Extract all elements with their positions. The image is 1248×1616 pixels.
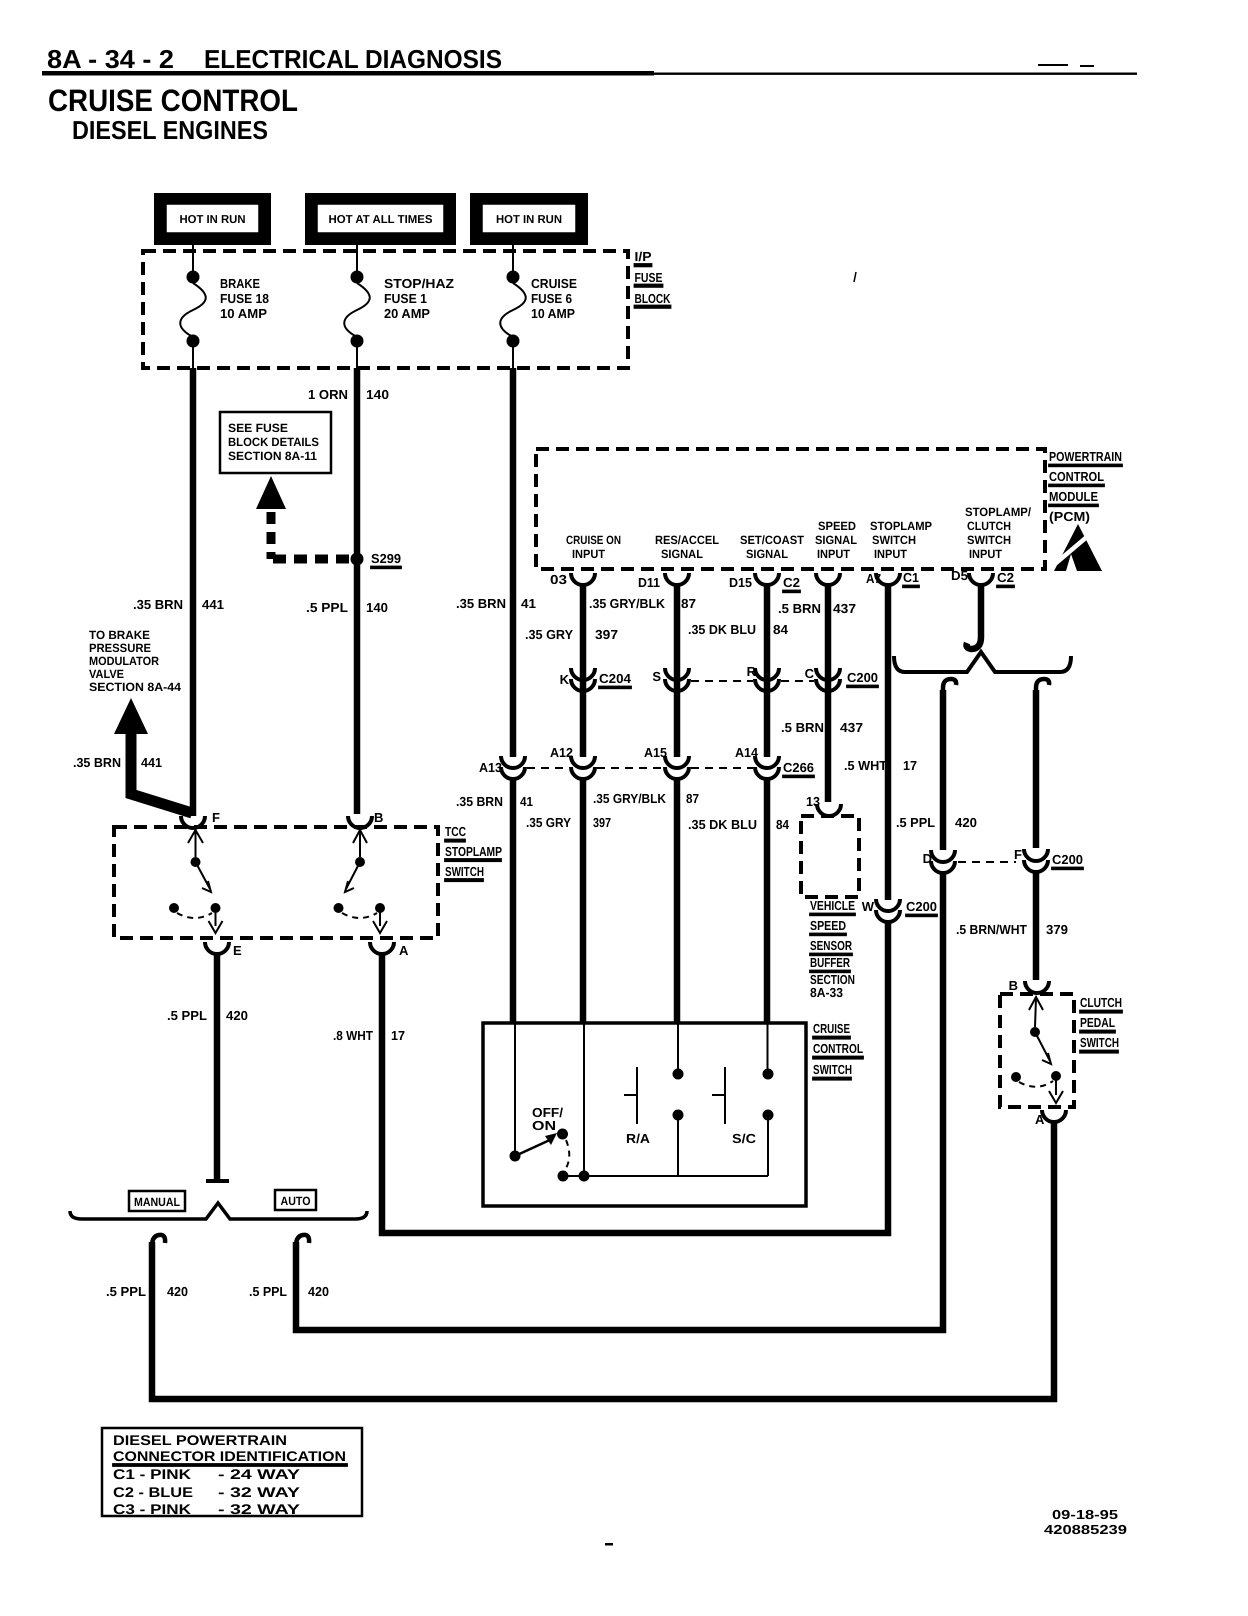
connector D	[931, 850, 955, 862]
TCC pin F	[181, 816, 205, 828]
wire A ckt 17 down, right, up to W C200	[382, 922, 888, 1233]
svg-text:CLUTCH: CLUTCH	[1080, 995, 1122, 1010]
vehicle speed sensor buffer dashed box	[801, 816, 859, 897]
svg-text:10 AMP: 10 AMP	[531, 306, 575, 321]
svg-text:.5 BRN: .5 BRN	[781, 720, 824, 735]
svg-text:FUSE 1: FUSE 1	[384, 291, 427, 306]
svg-text:420: 420	[308, 1284, 329, 1299]
wire D11 ckt 87	[674, 585, 681, 757]
svg-text:.35 BRN: .35 BRN	[456, 794, 503, 809]
svg-text:HOT IN RUN: HOT IN RUN	[180, 214, 246, 226]
connector A15	[665, 756, 689, 768]
label POWERTRAIN CONTROL MODULE (PCM)	[1049, 449, 1122, 524]
svg-text:A12: A12	[550, 745, 573, 760]
svg-text:420885239: 420885239	[1044, 1522, 1127, 1537]
svg-text:84: 84	[776, 817, 790, 832]
svg-text:441: 441	[141, 755, 162, 770]
wire brace left branch ckt 420	[943, 679, 956, 694]
svg-text:.8 WHT: .8 WHT	[333, 1028, 373, 1043]
svg-text:C200: C200	[847, 670, 878, 685]
svg-text:20 AMP: 20 AMP	[384, 306, 430, 321]
PCM pin D15 C2	[755, 573, 779, 585]
wire brake fuse to TCC pin F (ckt 441)	[190, 368, 197, 816]
svg-text:CRUISE: CRUISE	[813, 1021, 850, 1036]
wire feed1 to fuse block	[192, 245, 194, 272]
label box MANUAL	[129, 1191, 185, 1211]
PCM dashed box	[536, 449, 1045, 569]
connector S	[665, 668, 689, 680]
svg-text:.35 BRN: .35 BRN	[133, 597, 183, 612]
svg-text:SWITCH: SWITCH	[813, 1062, 852, 1077]
svg-text:VEHICLE: VEHICLE	[810, 898, 855, 913]
connector K C204	[571, 668, 595, 680]
svg-text:C2: C2	[783, 575, 800, 590]
svg-text:8A - 34 - 2: 8A - 34 - 2	[47, 44, 174, 74]
svg-text:CONNECTOR IDENTIFICATION: CONNECTOR IDENTIFICATION	[113, 1448, 346, 1464]
svg-text:13: 13	[806, 794, 820, 809]
svg-text:- 24 WAY: - 24 WAY	[218, 1466, 301, 1482]
svg-text:TO BRAKE: TO BRAKE	[89, 628, 150, 642]
wire dashed A13 to A12	[527, 767, 569, 769]
svg-text:.5 PPL: .5 PPL	[306, 600, 348, 615]
svg-text:PRESSURE: PRESSURE	[89, 641, 151, 655]
svg-text:R/A: R/A	[626, 1131, 651, 1146]
svg-text:140: 140	[366, 387, 389, 402]
svg-text:E: E	[233, 943, 242, 958]
PCM pin D11	[665, 573, 689, 585]
wire dashed S to R	[691, 680, 753, 682]
note box SEE FUSE BLOCK DETAILS	[220, 412, 331, 473]
svg-text:S299: S299	[371, 551, 401, 566]
svg-text:B: B	[374, 810, 383, 825]
svg-text:397: 397	[595, 627, 618, 642]
svg-text:INPUT: INPUT	[817, 547, 851, 561]
svg-text:MANUAL: MANUAL	[134, 1195, 180, 1209]
svg-text:RES/ACCEL: RES/ACCEL	[655, 533, 719, 547]
clutch pedal switch dashed box	[1000, 994, 1074, 1107]
svg-text:D11: D11	[638, 575, 660, 590]
svg-text:420: 420	[167, 1284, 188, 1299]
svg-text:POWERTRAIN: POWERTRAIN	[1049, 449, 1122, 464]
svg-text:1 ORN: 1 ORN	[308, 387, 348, 402]
svg-text:SWITCH: SWITCH	[1080, 1035, 1119, 1050]
svg-text:TCC: TCC	[445, 824, 466, 839]
clutch pedal switch contact	[1011, 997, 1063, 1103]
connector identification table	[102, 1428, 362, 1517]
svg-text:.5 PPL: .5 PPL	[249, 1284, 287, 1299]
svg-text:A: A	[399, 943, 409, 958]
label CRUISE CONTROL SWITCH	[813, 1021, 863, 1080]
svg-text:09-18-95: 09-18-95	[1052, 1507, 1118, 1522]
svg-text:K: K	[560, 672, 570, 687]
wire ckt 379 to clutch pedal switch	[1033, 872, 1040, 980]
connector A14 C266	[755, 756, 779, 768]
wire auto ckt 420 to connector D	[296, 1235, 309, 1250]
stray mark bottom	[605, 1543, 613, 1546]
connector R	[755, 668, 779, 680]
svg-text:STOPLAMP/: STOPLAMP/	[965, 505, 1032, 519]
svg-text:.35 BRN: .35 BRN	[73, 755, 121, 770]
connector C C200	[816, 668, 840, 680]
clutch pedal switch pin A	[1042, 1110, 1066, 1122]
svg-text:CLUTCH: CLUTCH	[967, 519, 1011, 533]
svg-text:MODULATOR: MODULATOR	[89, 654, 159, 668]
svg-text:HOT IN RUN: HOT IN RUN	[496, 214, 562, 226]
I/P fuse block dashed box	[143, 251, 628, 368]
svg-text:CRUISE: CRUISE	[531, 276, 577, 291]
wire cruise fuse into switch	[514, 1023, 516, 1152]
wire D5 stub with hook	[967, 585, 982, 649]
pin 13 VSS buffer	[817, 804, 841, 816]
brace splitting D5 wire	[894, 652, 1071, 672]
svg-text:DIESEL ENGINES: DIESEL ENGINES	[72, 115, 268, 145]
svg-text:C266: C266	[783, 760, 814, 775]
power feed box HOT IN RUN (left)	[154, 193, 271, 245]
svg-text:.5 PPL: .5 PPL	[896, 815, 935, 830]
svg-text:VALVE: VALVE	[89, 667, 124, 681]
svg-text:SWITCH: SWITCH	[872, 533, 916, 547]
arrow wire to brake pressure modulator valve	[114, 698, 148, 734]
connector F C200	[1024, 849, 1048, 861]
svg-text:SWITCH: SWITCH	[445, 864, 484, 879]
svg-text:S: S	[652, 669, 661, 684]
wire D11 into switch	[677, 1023, 679, 1070]
svg-text:17: 17	[391, 1028, 405, 1043]
clutch pedal switch pin B	[1025, 981, 1049, 993]
wire dashed A15 to A14	[691, 767, 753, 769]
svg-text:.35 GRY/BLK: .35 GRY/BLK	[593, 791, 667, 806]
svg-text:C200: C200	[906, 899, 937, 914]
svg-text:CONTROL: CONTROL	[813, 1041, 863, 1056]
svg-text:C1: C1	[903, 570, 919, 585]
svg-text:420: 420	[955, 815, 977, 830]
svg-text:BUFFER: BUFFER	[810, 955, 850, 970]
ESD warning symbol	[1049, 524, 1102, 571]
svg-text:SPEED: SPEED	[810, 918, 846, 933]
label box AUTO	[275, 1190, 316, 1210]
label TCC STOPLAMP SWITCH	[445, 824, 502, 881]
svg-text:C204: C204	[599, 671, 632, 686]
svg-text:D15: D15	[729, 575, 752, 590]
svg-text:379: 379	[1046, 922, 1068, 937]
svg-text:- 32 WAY: - 32 WAY	[218, 1484, 301, 1500]
wire A7 stoplamp input ckt 17 upper	[885, 585, 892, 900]
label I/P FUSE BLOCK	[635, 249, 671, 308]
svg-text:437: 437	[840, 720, 863, 735]
svg-text:D: D	[923, 851, 932, 866]
svg-text:.5 BRN/WHT: .5 BRN/WHT	[956, 922, 1027, 937]
wire manual ckt 420 to clutch pedal switch A	[152, 1235, 165, 1250]
svg-text:03: 03	[550, 572, 567, 587]
TCC switch contact left (F to E)	[169, 830, 223, 933]
S/C pushbutton	[712, 1067, 774, 1176]
connector W C200	[876, 899, 900, 911]
wire O3 into switch	[583, 1023, 585, 1174]
svg-text:BLOCK: BLOCK	[635, 291, 671, 306]
fuse BRAKE FUSE 18 10 AMP	[180, 271, 269, 369]
svg-text:ELECTRICAL DIAGNOSIS: ELECTRICAL DIAGNOSIS	[204, 44, 502, 74]
fuse STOP/HAZ FUSE 1 20 AMP	[344, 271, 454, 369]
svg-text:.35 DK BLU: .35 DK BLU	[688, 622, 756, 637]
svg-text:17: 17	[903, 758, 917, 773]
arrow to fuse details note	[256, 476, 286, 509]
power feed box HOT IN RUN (right)	[470, 193, 588, 245]
svg-text:140: 140	[366, 600, 388, 615]
TCC stoplamp switch dashed box	[114, 827, 438, 938]
svg-text:.5 WHT: .5 WHT	[844, 758, 887, 773]
TCC pin B	[348, 816, 372, 828]
svg-text:STOPLAMP: STOPLAMP	[445, 844, 502, 859]
PCM pin O3	[571, 573, 595, 585]
svg-text:SIGNAL: SIGNAL	[815, 533, 857, 547]
svg-text:C1 - PINK: C1 - PINK	[113, 1466, 191, 1482]
svg-text:A14: A14	[735, 745, 759, 760]
svg-text:SET/COAST: SET/COAST	[740, 533, 805, 547]
power feed box HOT AT ALL TIMES	[305, 193, 456, 245]
svg-text:(PCM): (PCM)	[1049, 509, 1090, 524]
svg-text:MODULE: MODULE	[1049, 489, 1098, 504]
svg-text:W: W	[862, 899, 875, 914]
svg-text:F: F	[1014, 847, 1022, 862]
svg-text:.35 BRN: .35 BRN	[456, 596, 506, 611]
wire stop/haz fuse to TCC pin B (ckt 140)	[354, 368, 361, 814]
wire speed signal ckt 437	[825, 585, 832, 802]
svg-text:STOP/HAZ: STOP/HAZ	[384, 276, 454, 291]
svg-text:INPUT: INPUT	[572, 547, 606, 561]
connector A13	[501, 756, 525, 768]
TCC switch contact right (B to A)	[334, 830, 388, 933]
wire dashed D to F	[958, 861, 1016, 863]
svg-text:I/P: I/P	[635, 249, 652, 264]
header rule	[42, 71, 654, 76]
svg-text:420: 420	[226, 1008, 248, 1023]
svg-text:C2 - BLUE: C2 - BLUE	[113, 1484, 193, 1500]
svg-text:A13: A13	[479, 760, 502, 775]
svg-text:SIGNAL: SIGNAL	[661, 547, 703, 561]
wire E ckt 420 down to brace	[214, 953, 221, 1180]
svg-text:.5 BRN: .5 BRN	[778, 601, 821, 616]
svg-text:10 AMP: 10 AMP	[220, 306, 267, 321]
svg-text:FUSE 6: FUSE 6	[531, 291, 572, 306]
svg-text:87: 87	[686, 791, 699, 806]
note TO BRAKE PRESSURE MODULATOR VALVE	[89, 628, 181, 694]
PCM pin D5 C2	[969, 573, 993, 585]
svg-text:BRAKE: BRAKE	[220, 276, 260, 291]
svg-text:ON: ON	[532, 1118, 556, 1133]
svg-text:397: 397	[593, 815, 611, 830]
svg-text:INPUT: INPUT	[874, 547, 908, 561]
svg-text:.35 GRY: .35 GRY	[526, 815, 571, 830]
svg-text:C: C	[805, 666, 815, 681]
svg-text:437: 437	[833, 601, 856, 616]
svg-text:84: 84	[773, 622, 789, 637]
R/A pushbutton	[624, 1067, 684, 1176]
svg-text:C2: C2	[997, 570, 1014, 585]
svg-text:CRUISE CONTROL: CRUISE CONTROL	[48, 83, 298, 118]
svg-text:BLOCK DETAILS: BLOCK DETAILS	[228, 435, 319, 449]
svg-text:SPEED: SPEED	[818, 519, 856, 533]
svg-text:SECTION 8A-44: SECTION 8A-44	[89, 680, 181, 694]
svg-text:41: 41	[520, 794, 533, 809]
svg-text:B: B	[1009, 978, 1018, 993]
svg-text:.35 GRY/BLK: .35 GRY/BLK	[589, 596, 666, 611]
wire O3 ckt 397	[580, 585, 587, 757]
svg-text:FUSE: FUSE	[635, 270, 663, 285]
svg-text:A7: A7	[866, 571, 881, 586]
TCC pin A	[370, 942, 394, 954]
svg-text:SECTION 8A-11: SECTION 8A-11	[228, 449, 317, 463]
wire cruise fuse ckt 41 upper	[510, 368, 517, 757]
svg-text:D5: D5	[951, 568, 968, 583]
svg-text:A15: A15	[644, 745, 667, 760]
svg-text:.35 GRY: .35 GRY	[525, 627, 573, 642]
svg-text:87: 87	[681, 596, 696, 611]
wire dashed A12 to A15	[597, 767, 663, 769]
PCM pin A7 C1	[876, 573, 900, 585]
svg-text:PEDAL: PEDAL	[1080, 1015, 1115, 1030]
svg-text:STOPLAMP: STOPLAMP	[870, 519, 932, 533]
svg-text:S/C: S/C	[732, 1131, 757, 1146]
svg-text:.5 PPL: .5 PPL	[106, 1284, 146, 1299]
wire D15 ckt 84	[764, 585, 771, 757]
svg-text:441: 441	[202, 597, 224, 612]
OFF/ON switch	[510, 1105, 590, 1182]
wire cruise fuse ckt 41 lower to switch	[510, 780, 517, 1023]
svg-text:FUSE 18: FUSE 18	[220, 291, 269, 306]
PCM pin speed signal	[816, 573, 840, 585]
svg-text:41: 41	[521, 596, 536, 611]
svg-text:CONTROL: CONTROL	[1049, 469, 1104, 484]
label VEHICLE SPEED SENSOR BUFFER SECTION 8A-33	[810, 898, 855, 1000]
svg-text:INPUT: INPUT	[969, 547, 1003, 561]
cruise control switch box	[483, 1023, 806, 1206]
svg-text:C200: C200	[1052, 852, 1083, 867]
svg-text:SENSOR: SENSOR	[810, 938, 852, 953]
svg-text:AUTO: AUTO	[281, 1194, 311, 1208]
svg-text:C3 - PINK: C3 - PINK	[113, 1501, 191, 1517]
svg-text:SWITCH: SWITCH	[967, 533, 1011, 547]
svg-text:.35 DK BLU: .35 DK BLU	[688, 817, 757, 832]
wire feed2 to fuse block	[356, 245, 358, 272]
wire dashed R to C	[781, 680, 814, 682]
svg-text:- 32 WAY: - 32 WAY	[218, 1501, 301, 1517]
svg-text:.5 PPL: .5 PPL	[167, 1008, 207, 1023]
TCC pin E	[205, 942, 229, 954]
fuse CRUISE FUSE 6 10 AMP	[500, 271, 577, 369]
connector A12	[571, 756, 595, 768]
svg-text:8A-33: 8A-33	[810, 985, 843, 1000]
svg-text:A: A	[1035, 1112, 1045, 1127]
svg-text:CRUISE ON: CRUISE ON	[566, 533, 621, 547]
splice S299	[351, 553, 364, 566]
svg-text:R: R	[747, 664, 757, 679]
svg-text:DIESEL POWERTRAIN: DIESEL POWERTRAIN	[113, 1432, 287, 1448]
stray apostrophe mark	[854, 272, 856, 282]
switch common rail	[563, 1175, 768, 1177]
wire brace right branch ckt 379	[1036, 679, 1049, 694]
svg-text:HOT AT ALL TIMES: HOT AT ALL TIMES	[329, 214, 433, 226]
svg-text:SEE FUSE: SEE FUSE	[228, 421, 288, 435]
wire feed3 to fuse block	[512, 245, 514, 272]
svg-text:F: F	[212, 810, 220, 825]
brace manual/auto	[70, 1203, 367, 1219]
svg-text:SIGNAL: SIGNAL	[746, 547, 788, 561]
label CLUTCH PEDAL SWITCH	[1080, 995, 1122, 1053]
wire D15 into switch	[767, 1023, 769, 1070]
